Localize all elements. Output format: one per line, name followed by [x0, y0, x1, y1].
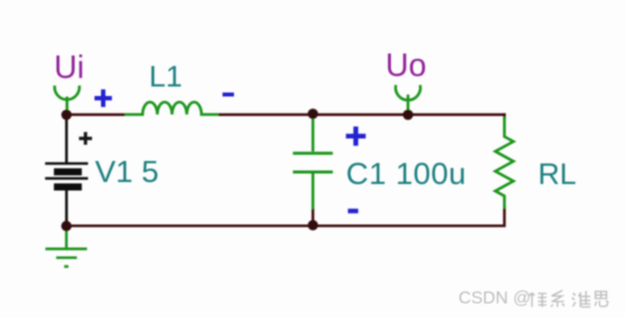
- battery V1 plate 4 (short thick): [54, 183, 82, 190]
- watermark hanzi qing: [530, 293, 548, 309]
- capacitor C1 upper lead (green): [311, 116, 314, 152]
- battery V1 plate 1 (long thin): [45, 162, 88, 165]
- watermark hanzi xi: [551, 291, 566, 309]
- battery V1 plate 3 (long thin): [45, 177, 88, 180]
- node junction dot at Uo: [403, 110, 413, 120]
- watermark hanzi si: [595, 292, 610, 308]
- svg-text:C1 100u: C1 100u: [346, 156, 466, 191]
- polarity - right of L1 (blue): [223, 93, 235, 97]
- wire: capacitor C1 lower lead to bottom wire: [312, 208, 315, 225]
- svg-text:CSDN @: CSDN @: [459, 288, 531, 308]
- battery V1 top lead: [65, 115, 68, 163]
- svg-text:RL: RL: [538, 158, 576, 191]
- polarity - below C1 (blue): [348, 209, 358, 214]
- watermark hanzi huai: [572, 291, 592, 308]
- node junction dot at ground: [61, 221, 71, 231]
- capacitor C1 plate 1: [293, 152, 333, 155]
- inductor L1 (green coil with leads): [125, 102, 219, 114]
- svg-text:Uo: Uo: [386, 47, 427, 83]
- node junction dot at C1 top: [308, 109, 318, 119]
- watermark CSDN @qingxihuaisi: [459, 288, 532, 309]
- svg-text:Ui: Ui: [54, 49, 84, 85]
- battery V1 bottom lead: [65, 191, 68, 226]
- capacitor C1 plate 2: [293, 171, 333, 174]
- capacitor C1 lower lead (green part): [311, 174, 314, 210]
- polarity + left of L1 (blue): [95, 89, 112, 107]
- wire top: inductor L1 right lead to node Uo and corner to RL: [218, 113, 506, 116]
- node junction dot at Ui: [61, 110, 71, 120]
- svg-text:L1: L1: [149, 61, 182, 94]
- resistor RL (green zigzag): [495, 117, 513, 209]
- polarity + above C1 (blue): [346, 127, 366, 146]
- battery polarity + (black): [79, 132, 92, 145]
- probe Ui symbol (green cup and stem): [55, 86, 80, 113]
- probe Uo symbol (green cup and stem): [396, 85, 421, 112]
- wire top: node Ui to inductor L1 left lead: [67, 113, 126, 116]
- wire corner: top right down to resistor RL: [503, 113, 506, 119]
- svg-text:V1 5: V1 5: [95, 154, 159, 189]
- node junction dot at C1 bottom: [308, 220, 318, 230]
- battery V1 plate 2 (short thick): [54, 168, 82, 175]
- ground symbol (green): [45, 227, 87, 267]
- wire bottom: ground node to C1 node to RL bottom corner: [66, 207, 504, 226]
